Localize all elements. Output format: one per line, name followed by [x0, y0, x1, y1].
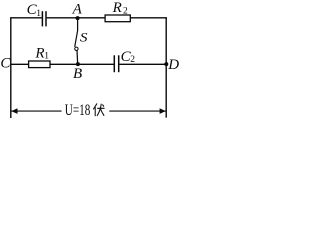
svg-text:U=18: U=18 — [65, 101, 91, 118]
label fu (Chinese volt character) drawn as strokes — [94, 104, 105, 116]
dimension line U arrows — [11, 110, 165, 112]
svg-text:1: 1 — [44, 51, 49, 61]
svg-text:2: 2 — [123, 6, 128, 16]
svg-text:A: A — [72, 1, 83, 17]
wire right rail — [165, 17, 167, 117]
svg-text:C: C — [0, 56, 11, 72]
capacitor C1 — [42, 11, 46, 26]
capacitor C2 — [114, 55, 118, 72]
resistor R1 — [29, 61, 50, 68]
wire middle right segment — [119, 63, 166, 65]
switch S — [75, 20, 78, 63]
node A — [76, 16, 80, 20]
svg-text:S: S — [80, 32, 88, 45]
wire top left segment — [10, 17, 42, 19]
wire top right segment — [131, 17, 167, 19]
node B — [76, 62, 80, 66]
svg-text:R: R — [112, 0, 122, 16]
svg-text:D: D — [167, 57, 179, 73]
resistor R2 — [105, 15, 130, 22]
wire middle center segment — [50, 63, 113, 65]
wire middle left segment — [10, 63, 28, 65]
svg-text:2: 2 — [130, 55, 135, 65]
wire top middle segment — [47, 17, 105, 19]
svg-text:1: 1 — [36, 9, 41, 19]
svg-text:R: R — [34, 45, 44, 61]
wire left rail — [10, 17, 12, 118]
node D — [164, 62, 168, 66]
svg-text:B: B — [73, 66, 82, 82]
